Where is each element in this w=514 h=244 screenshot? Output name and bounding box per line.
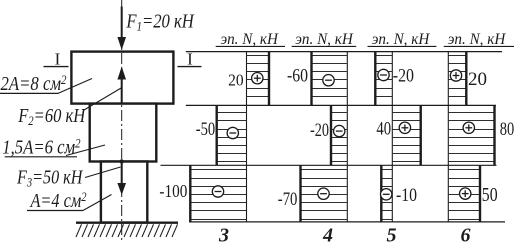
diagram 5 top bar value line [374,52,376,106]
diagram 6 bottom bar value line [479,165,481,222]
diagram 5 mid bar value line [420,105,422,165]
leader for F2 [84,88,122,111]
diagram 3 top bar +20 hatch [247,55,270,57]
svg-text:I: I [55,50,61,69]
force F2 arrow (up, inside top block) [121,78,123,103]
section boundary line 2 [161,164,497,166]
centerline (dash-dot axis of column) [121,0,123,243]
svg-text:50: 50 [482,185,498,206]
diagram 6 mid bar value line [493,105,495,165]
diagram 6 top bar +20 hatch [448,55,466,57]
svg-text:F3=50 кН: F3=50 кН [16,166,83,189]
svg-text:2A=8 см2: 2A=8 см2 [1,72,67,95]
svg-text:1,5A=6 см2: 1,5A=6 см2 [2,136,81,159]
diagram 4 top bar value line [310,52,312,106]
svg-text:5: 5 [387,225,397,244]
force F1 arrow [121,7,123,40]
top reference line of diagrams [186,51,502,53]
top block 2A [71,52,173,104]
base reference line of diagrams [189,221,505,223]
diagram 6 mid bar +80 hatch [448,112,494,114]
diagram 6 top bar value line [465,52,467,106]
bottom block A [101,162,147,223]
diagram 4 bottom bar value line [299,165,301,222]
svg-text:-70: -70 [278,190,298,210]
section boundary line 1 [186,104,496,106]
svg-text:эп. N, кН: эп. N, кН [220,31,279,48]
diagram 5 bottom bar value line [380,165,382,222]
svg-text:эп. N, кН: эп. N, кН [448,31,507,48]
diagram 6 bottom bar +50 hatch [448,169,480,171]
diagram 3 bottom bar value line [189,165,191,222]
svg-text:6: 6 [461,225,471,244]
diagram 3 plus circle (top) [252,73,263,84]
diagram 4 minus circle (mid) [334,125,345,136]
svg-text:A=4 см2: A=4 см2 [29,189,87,212]
diagram 5 minus circle (bottom) [381,189,392,200]
svg-text:-60: -60 [287,66,308,87]
middle block 1.5A [90,104,157,162]
diagram 5 plus circle (mid) [399,122,410,133]
svg-text:эп. N, кН: эп. N, кН [372,31,431,48]
diagram 3 mid bar value line [215,105,217,165]
leader for F3 [85,167,121,178]
diagram 4 top bar -60 hatch [312,55,348,57]
diagram 4 mid bar -20 hatch [331,112,347,114]
diagram 3 bottom bar -100 hatch [190,169,246,171]
ground hatching [76,224,82,237]
diagram 4 mid bar value line [330,105,332,165]
svg-text:-10: -10 [396,185,417,206]
svg-text:3: 3 [218,225,229,244]
ground line [76,221,178,223]
svg-text:F1=20 кН: F1=20 кН [126,11,196,34]
diagram 6 axis [447,52,449,222]
svg-text:80: 80 [500,119,514,140]
leader for A [83,195,112,211]
svg-text:-100: -100 [159,181,187,201]
force F3 arrow (down, inside bottom block) [120,159,124,163]
diagram 5 mid bar +40 hatch [392,112,420,114]
diagram 4 bottom bar -70 hatch [301,169,348,171]
diagram 5 axis [391,52,393,222]
leader for 1,5A [66,145,105,156]
diagram 3 axis [246,52,248,222]
diagram 4 axis [346,52,348,222]
diagram 3 top bar value line [268,52,270,106]
diagram 6 plus circle (bottom) [460,188,471,199]
svg-text:40: 40 [376,119,391,139]
diagram 5 minus circle (top) [378,69,389,80]
svg-text:I: I [187,49,193,68]
svg-text:-20: -20 [393,67,414,87]
leader for 2A [58,79,92,94]
diagram 3 mid bar -50 hatch [217,112,247,114]
diagram 6 plus circle (top) [450,70,461,81]
diagram 5 top bar -20 hatch [375,55,392,57]
diagram 6 plus circle (mid) [463,122,474,133]
svg-text:F2=60 кН: F2=60 кН [17,105,86,128]
svg-text:-50: -50 [196,119,215,140]
svg-text:эп. N, кН: эп. N, кН [295,31,354,48]
diagram 3 minus circle (bottom) [212,186,223,197]
svg-text:20: 20 [228,71,244,90]
svg-text:20: 20 [468,70,487,90]
diagram 4 minus circle (bottom) [318,188,329,199]
diagram 3 minus circle (mid) [227,127,238,138]
svg-text:4: 4 [322,225,333,244]
diagram 5 bottom bar -10 hatch [381,169,392,171]
diagram 4 minus circle (top) [323,75,334,86]
svg-text:-20: -20 [310,120,329,141]
